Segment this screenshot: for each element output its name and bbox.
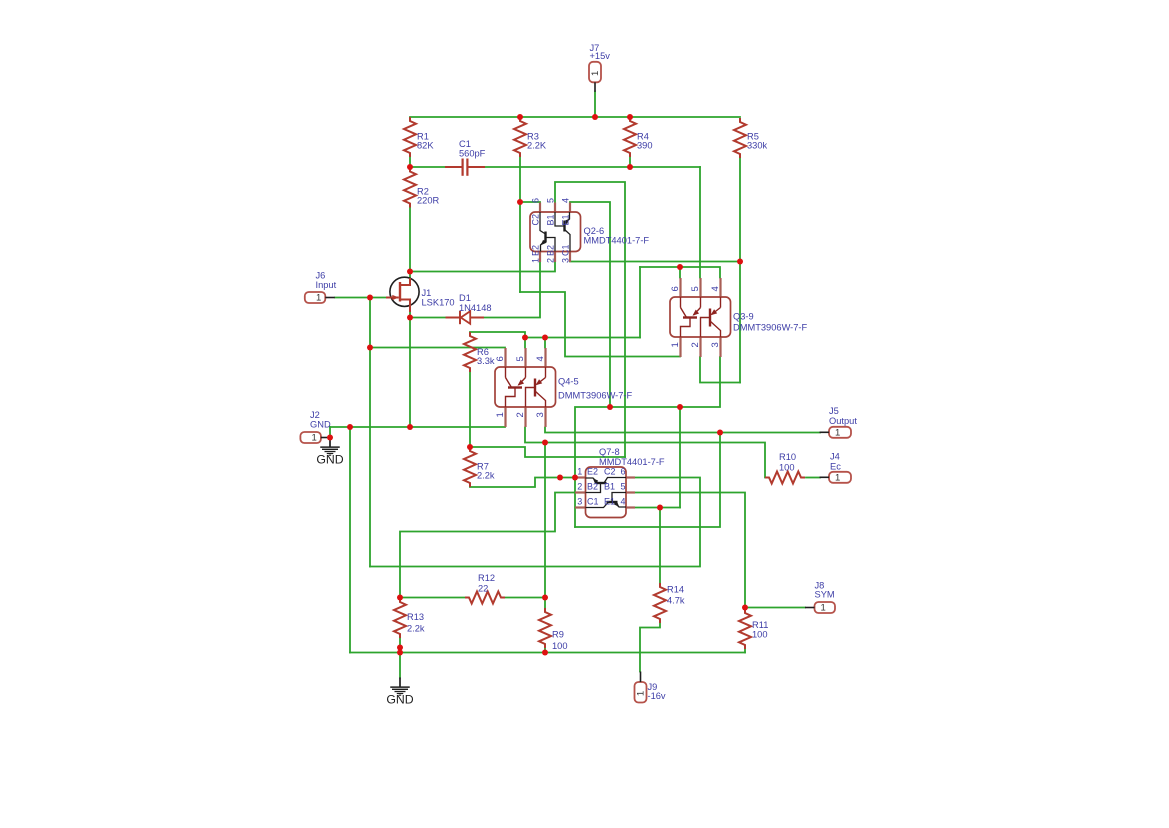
wire R9 top stub (544, 598, 546, 609)
wire J2 riser (329, 427, 331, 438)
svg-text:1: 1 (590, 71, 601, 76)
wire R1 bottom stub (409, 157, 411, 167)
wire x545 column (544, 443, 546, 598)
svg-text:4: 4 (561, 198, 571, 203)
junction input tap (367, 345, 373, 351)
svg-text:1: 1 (636, 691, 647, 696)
wire R12 left lead (400, 597, 465, 599)
resistor R9 (539, 608, 568, 651)
connector J8 SYM (805, 581, 835, 614)
svg-text:DMMT3906W-7-F: DMMT3906W-7-F (558, 391, 633, 401)
wire C1 right rail (485, 166, 700, 168)
svg-text:Output: Output (829, 416, 857, 426)
junction R13 rail (397, 650, 403, 656)
svg-text:E2: E2 (587, 467, 598, 477)
wire node A left of C1 (410, 166, 445, 168)
transistor Q4-5 DMMT3906W-7-F (495, 348, 633, 427)
svg-text:J5: J5 (829, 406, 839, 416)
junction C1-R5 node (737, 259, 743, 265)
resistor R12 (465, 573, 505, 604)
wire Q4-5 pin3 to output (545, 428, 820, 433)
junction R1-R2 node (407, 164, 413, 170)
wire Q4-5 pin4 stub (544, 338, 546, 348)
junction R6-R7 node (467, 444, 473, 450)
svg-text:5: 5 (546, 198, 556, 203)
wire J1 drain to Q2-6 B2 (410, 262, 555, 272)
wire J1 drain stub (409, 272, 411, 279)
wire Q7-8 C2 to input net (370, 478, 700, 567)
connector J5 Output (820, 406, 858, 438)
junction R3 top (517, 114, 523, 120)
svg-text:1: 1 (670, 342, 681, 347)
wire Q7-8 E1 row (635, 507, 680, 509)
resistor R2 (404, 168, 440, 208)
svg-text:1: 1 (835, 472, 840, 483)
svg-text:2: 2 (515, 412, 526, 417)
svg-text:330k: 330k (747, 141, 768, 151)
svg-text:2: 2 (690, 342, 701, 347)
wire J1 source down (409, 318, 411, 428)
wire J6 input to J1 gate (335, 297, 386, 299)
svg-text:B1: B1 (604, 482, 615, 492)
transistor J1 LSK170 (386, 277, 455, 312)
svg-text:3: 3 (561, 258, 571, 263)
svg-text:GND: GND (316, 452, 343, 466)
junction R3 tap (517, 199, 523, 205)
svg-text:4: 4 (710, 286, 721, 291)
svg-text:6: 6 (670, 286, 681, 291)
svg-text:560pF: 560pF (459, 149, 486, 159)
svg-text:1N4148: 1N4148 (459, 303, 492, 313)
svg-text:B2: B2 (587, 482, 598, 492)
junction input node (367, 295, 373, 301)
diode D1 (446, 293, 492, 324)
resistor R6 (464, 332, 495, 372)
wire input node down (369, 298, 371, 567)
resistor R7 (464, 447, 495, 487)
svg-text:D1: D1 (459, 293, 471, 303)
wire R6 top link (470, 332, 525, 338)
junction E1 row (657, 505, 663, 511)
svg-text:R12: R12 (478, 573, 495, 583)
svg-text:6: 6 (531, 198, 541, 203)
svg-text:MMDT4401-7-F: MMDT4401-7-F (584, 236, 650, 246)
junction R13 bottom (397, 645, 403, 651)
resistor R10 (765, 452, 805, 484)
junction gnd rail x350 (347, 424, 353, 430)
svg-text:GND: GND (310, 420, 331, 430)
svg-text:C1: C1 (587, 497, 599, 507)
wire Q4-5 bias rail (525, 337, 640, 339)
svg-text:100: 100 (752, 630, 768, 640)
svg-text:C2: C2 (604, 467, 616, 477)
svg-text:R13: R13 (407, 612, 424, 622)
wire R4 bottom stub (629, 157, 631, 167)
svg-text:SYM: SYM (815, 590, 835, 600)
svg-text:4.7k: 4.7k (667, 596, 685, 606)
svg-text:1: 1 (835, 427, 840, 438)
svg-text:1: 1 (821, 603, 826, 614)
svg-text:E1: E1 (604, 497, 615, 507)
svg-text:2.2k: 2.2k (477, 471, 495, 481)
svg-text:GND: GND (386, 692, 413, 706)
wire x680 emitter branch (679, 407, 681, 508)
connector J6 Input (305, 271, 337, 304)
resistor R3 (514, 117, 547, 157)
svg-text:4: 4 (535, 356, 546, 361)
svg-text:1: 1 (495, 412, 506, 417)
junction E2 row a (557, 475, 563, 481)
svg-text:1: 1 (531, 258, 541, 263)
junction R4 top (627, 114, 633, 120)
wire emitter bus bottom (575, 433, 720, 528)
svg-text:5: 5 (690, 286, 701, 291)
svg-text:E1: E1 (561, 214, 571, 225)
svg-text:R9: R9 (552, 630, 564, 640)
wire R3 tap to Q2-6 C2 (520, 201, 540, 203)
wire x640 riser (639, 267, 641, 338)
wire +15V top rail (410, 116, 740, 118)
svg-text:2: 2 (546, 258, 556, 263)
wire J1 source stub (409, 312, 411, 318)
wire SYM to J8 (745, 607, 805, 609)
transistor Q3-9 DMMT3906W-7-F (670, 278, 808, 357)
wire R3 column (519, 157, 521, 292)
svg-text:C1: C1 (561, 244, 571, 256)
svg-text:J2: J2 (310, 410, 320, 420)
svg-text:22: 22 (478, 584, 488, 594)
svg-text:DMMT3906W-7-F: DMMT3906W-7-F (733, 323, 808, 333)
wire R14 bottom jog (640, 623, 660, 672)
wire R10 to J4 (806, 477, 820, 479)
junction R9 bottom (542, 650, 548, 656)
svg-text:4: 4 (621, 497, 626, 507)
svg-text:J1: J1 (422, 288, 432, 298)
svg-text:1: 1 (316, 293, 321, 304)
svg-text:3: 3 (535, 412, 546, 417)
svg-text:5: 5 (621, 482, 626, 492)
junction E2 row b (572, 475, 578, 481)
wire R13 bottom (399, 638, 401, 678)
junction J7 rail (592, 114, 598, 120)
wire Q3-9 pin3 to emitter bus (575, 357, 720, 527)
wire Q2-6 E1 to x610 (570, 202, 610, 407)
wire R12 right lead (505, 597, 545, 599)
svg-text:220R: 220R (417, 196, 440, 206)
wire Q3-9 pin6 stub (679, 267, 681, 278)
svg-text:3.3k: 3.3k (477, 356, 495, 366)
svg-text:LSK170: LSK170 (422, 298, 455, 308)
junction R4 bottom (627, 164, 633, 170)
svg-text:1: 1 (577, 467, 582, 477)
svg-text:1: 1 (312, 433, 317, 444)
wire Q2-6 B1 to x625 (555, 182, 625, 457)
junction output emitter x680 (677, 404, 683, 410)
wire Q3-9 pin2 jog (700, 357, 740, 383)
svg-text:J6: J6 (316, 271, 326, 281)
wire -16V bottom rail (350, 652, 745, 654)
junction Q4-5 pin4 top (542, 335, 548, 341)
svg-text:R10: R10 (779, 452, 796, 462)
svg-text:+15v: +15v (590, 51, 611, 61)
wire R9 bottom stub (544, 648, 546, 653)
wire R2 bottom (409, 208, 411, 272)
svg-text:Ec: Ec (830, 462, 841, 472)
junction output node (717, 430, 723, 436)
svg-text:C1: C1 (459, 139, 471, 149)
svg-text:6: 6 (621, 467, 626, 477)
resistor R14 (654, 583, 685, 623)
wire R14 top (659, 508, 661, 584)
svg-text:390: 390 (637, 141, 653, 151)
svg-text:2: 2 (577, 482, 582, 492)
resistor R4 (624, 117, 653, 157)
wire J1 source to D1 (410, 317, 446, 319)
svg-text:Q2-6: Q2-6 (584, 226, 605, 236)
wire Q4-5 pin5 stub (524, 338, 526, 348)
resistor R5 (734, 118, 768, 158)
wire Q2-6 C1 to R5 column (570, 261, 740, 263)
svg-text:B1: B1 (546, 214, 556, 225)
svg-text:100: 100 (552, 641, 568, 651)
resistor R11 (739, 609, 768, 649)
svg-text:6: 6 (495, 356, 506, 361)
junction Q3-9 pin6 (677, 264, 683, 270)
ground symbol bottom (386, 678, 413, 707)
wire R6-R7 link (469, 372, 471, 447)
wire gate net to Q4-5 pin6 (370, 347, 505, 349)
svg-text:-16v: -16v (648, 691, 666, 701)
svg-text:J4: J4 (830, 452, 840, 462)
transistor Q2-6 MMDT4401-7-F (530, 198, 649, 263)
svg-text:MMDT4401-7-F: MMDT4401-7-F (599, 457, 665, 467)
svg-text:2.2K: 2.2K (527, 141, 547, 151)
wire Q7-8 B2 link (400, 493, 575, 598)
svg-text:C2: C2 (531, 214, 541, 226)
svg-text:Q7-8: Q7-8 (599, 447, 620, 457)
svg-text:100: 100 (779, 463, 795, 473)
svg-text:R11: R11 (752, 620, 768, 630)
svg-text:3: 3 (577, 497, 582, 507)
junction R12 left (397, 595, 403, 601)
wire R7 bottom link (470, 478, 575, 488)
junction J1 drain (407, 269, 413, 275)
junction R12 right (542, 595, 548, 601)
wire R3 link to x565 (520, 292, 680, 357)
capacitor C1 (445, 139, 486, 176)
resistor R13 (394, 598, 425, 638)
svg-text:Input: Input (316, 280, 337, 290)
junction output emitter x610 (607, 404, 613, 410)
connector J4 Ec (820, 452, 852, 484)
connector J2 GND (300, 410, 331, 444)
svg-text:82K: 82K (417, 141, 434, 151)
ground symbol at J2 (316, 438, 343, 467)
svg-text:E2: E2 (531, 245, 541, 256)
svg-text:Q4-5: Q4-5 (558, 377, 579, 387)
junction Q4-5 pin5 top (522, 335, 528, 341)
wire x350 ground drop (349, 427, 351, 653)
svg-text:5: 5 (515, 356, 526, 361)
svg-text:R14: R14 (667, 585, 684, 595)
svg-text:2.2k: 2.2k (407, 624, 425, 634)
wire Q3-9 top bracket (640, 267, 720, 278)
svg-text:Q3-9: Q3-9 (733, 312, 754, 322)
svg-text:3: 3 (710, 342, 721, 347)
junction J2 pin (327, 435, 333, 441)
connector J7 +15v (589, 43, 610, 92)
wire Q7-8 B1 to SYM (635, 493, 745, 608)
wire D1 to Q2-6 E2 (484, 262, 540, 318)
wire R7 top to B1 net (470, 447, 625, 457)
junction SYM node (742, 605, 748, 611)
wire rail to Q3-9 pin5 (699, 167, 701, 278)
svg-text:B2: B2 (546, 245, 556, 256)
connector J9 -16v (635, 672, 666, 703)
wire J7 riser (594, 92, 596, 118)
junction Ec node (542, 440, 548, 446)
junction gnd rail x410 (407, 424, 413, 430)
resistor R1 (404, 117, 434, 157)
wire GND rail (330, 426, 505, 428)
junction J1 source (407, 315, 413, 321)
transistor Q7-8 MMDT4401-7-F (575, 447, 665, 518)
wire R5 column (739, 158, 741, 383)
wire Q4-5 pin2 to Ec (525, 428, 765, 478)
wire R11 bottom stub (744, 649, 746, 653)
